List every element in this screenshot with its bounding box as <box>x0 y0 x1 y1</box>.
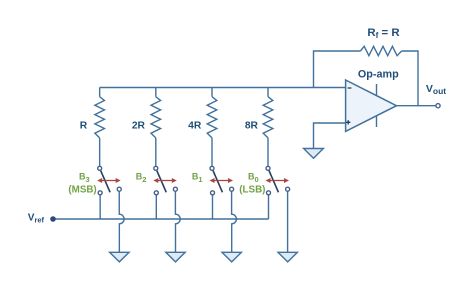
svg-text:8R: 8R <box>245 121 259 132</box>
svg-text:Rf = R: Rf = R <box>367 27 399 40</box>
svg-text:(LSB): (LSB) <box>239 184 265 195</box>
svg-text:Vref: Vref <box>28 212 45 224</box>
svg-text:Vout: Vout <box>426 83 446 96</box>
svg-text:B1: B1 <box>192 171 203 184</box>
svg-text:B2: B2 <box>136 171 147 184</box>
svg-text:2R: 2R <box>132 121 146 132</box>
svg-text:R: R <box>80 121 88 132</box>
svg-text:B0: B0 <box>248 171 259 184</box>
svg-text:Op-amp: Op-amp <box>358 69 399 81</box>
svg-text:4R: 4R <box>188 121 202 132</box>
svg-text:(MSB): (MSB) <box>68 184 96 195</box>
svg-text:B3: B3 <box>79 171 90 184</box>
